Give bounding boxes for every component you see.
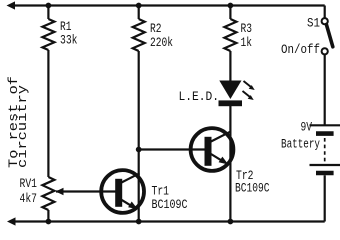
node top R2 xyxy=(136,3,142,9)
svg-text:R3: R3 xyxy=(241,21,253,36)
svg-text:9V: 9V xyxy=(301,120,313,135)
svg-text:1k: 1k xyxy=(241,35,253,50)
LED light arrow upper xyxy=(244,81,252,87)
svg-text:4k7: 4k7 xyxy=(20,191,38,206)
resistor R2 xyxy=(133,19,145,51)
svg-text:Battery: Battery xyxy=(281,137,320,152)
svg-text:R2: R2 xyxy=(150,21,162,36)
svg-text:L.E.D.: L.E.D. xyxy=(179,89,220,104)
wire left branch x=48.4 (R1/RV1 chain) xyxy=(47,6,49,20)
wire R3 to LED xyxy=(229,51,231,81)
transistor Tr1 xyxy=(101,170,144,213)
svg-text:RV1: RV1 xyxy=(20,176,38,191)
LED light arrow lower xyxy=(243,91,251,97)
transistor Tr2 xyxy=(191,128,234,171)
wire bottom rail xyxy=(10,220,325,222)
svg-text:BC109C: BC109C xyxy=(152,197,188,212)
wire R2 down through Tr1 to bottom rail xyxy=(138,51,140,222)
wire right branch x=230.4 (R3/LED/Tr2 chain) xyxy=(229,6,231,20)
LED cathode bar xyxy=(219,100,243,106)
svg-text:220k: 220k xyxy=(150,35,173,50)
label To rest of circuitry xyxy=(6,76,30,168)
node Tr2 base tee xyxy=(136,147,142,153)
svg-text:BC109C: BC109C xyxy=(235,180,270,195)
wire battery to bottom rail xyxy=(324,175,326,221)
svg-text:S1: S1 xyxy=(307,16,320,31)
wire switch to battery xyxy=(324,55,326,126)
potentiometer RV1 xyxy=(42,177,54,210)
svg-text:circuitry: circuitry xyxy=(15,85,30,168)
switch S1 xyxy=(322,6,333,55)
node bottom Tr2 xyxy=(228,219,234,225)
wire RV1 to bottom rail xyxy=(47,210,49,222)
wire LED down through Tr2 to bottom rail xyxy=(229,106,231,222)
arrow wiper head xyxy=(56,188,64,195)
resistor R3 xyxy=(224,19,236,51)
wire middle branch x=138.7 (R2/Tr1 chain) xyxy=(138,6,140,20)
node top R3 xyxy=(228,3,234,9)
wire R1 to RV1 xyxy=(47,50,49,177)
node bottom Tr1 xyxy=(136,219,142,225)
wire Tr2 base to middle branch xyxy=(139,148,206,150)
arrow left end of top rail xyxy=(7,1,16,9)
resistor R1 xyxy=(42,19,54,50)
LED D1 triangle xyxy=(219,81,241,100)
wire top rail xyxy=(10,4,325,6)
svg-text:On/off: On/off xyxy=(281,42,320,57)
wire RV1 wiper to Tr1 base xyxy=(56,190,116,192)
arrow left end of bottom rail xyxy=(7,217,16,225)
node bottom RV1 xyxy=(46,219,52,225)
battery B1 xyxy=(310,125,340,173)
svg-text:33k: 33k xyxy=(60,33,78,48)
node top R1 xyxy=(46,3,52,9)
